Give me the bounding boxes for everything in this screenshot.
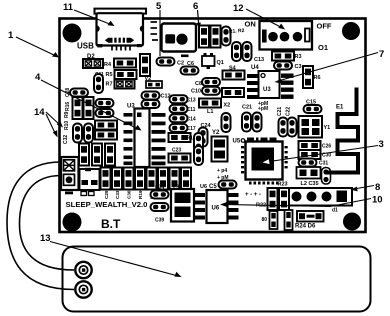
capacitor C13 bbox=[170, 95, 196, 103]
capacitor C32 bbox=[63, 135, 115, 166]
capacitor C22 bbox=[253, 113, 262, 132]
capacitor bbox=[211, 26, 221, 48]
svg-text:14: 14 bbox=[34, 107, 45, 118]
test pads pM bbox=[258, 101, 268, 112]
svg-text:C29: C29 bbox=[104, 190, 109, 199]
svg-text:X2: X2 bbox=[224, 103, 231, 109]
mounting hole top-left bbox=[63, 24, 82, 43]
capacitor C2 bbox=[157, 58, 185, 67]
svg-text:U6: U6 bbox=[212, 206, 220, 212]
wire battery positive bbox=[7, 162, 74, 290]
svg-text:L2 C35: L2 C35 bbox=[301, 181, 319, 187]
capacitor bbox=[222, 27, 231, 46]
mounting hole bottom-left bbox=[63, 213, 82, 232]
test points bbox=[217, 168, 229, 181]
svg-text:R4: R4 bbox=[104, 62, 112, 68]
svg-text:C30: C30 bbox=[127, 190, 132, 199]
battery connector BT1 bbox=[61, 157, 79, 194]
callout 13 bbox=[40, 233, 182, 277]
svg-text:OFF: OFF bbox=[317, 22, 332, 31]
capacitor C21b bbox=[277, 107, 288, 137]
resistor R15 bbox=[169, 148, 191, 163]
svg-text:+pM: +pM bbox=[258, 106, 268, 112]
svg-text:B.T: B.T bbox=[101, 217, 121, 231]
svg-text:C21: C21 bbox=[242, 105, 252, 111]
svg-text:5: 5 bbox=[156, 1, 162, 12]
callout 1 bbox=[8, 30, 59, 58]
svg-text:C33: C33 bbox=[115, 190, 120, 199]
capacitor C11 bbox=[94, 74, 103, 93]
svg-text:R3: R3 bbox=[295, 54, 302, 60]
callout 3 bbox=[263, 139, 384, 164]
crystal Y2 bbox=[212, 130, 228, 162]
capacitor C26 bbox=[299, 141, 332, 150]
resistor R5 bbox=[95, 70, 137, 79]
IC U3 (SOIC) bbox=[247, 71, 294, 99]
svg-text:C11: C11 bbox=[187, 107, 196, 113]
callout 14 bbox=[34, 107, 63, 138]
callout 4 bbox=[35, 72, 142, 131]
svg-text:Y1: Y1 bbox=[324, 125, 331, 131]
resistor S4 bbox=[223, 66, 245, 80]
callout 12 bbox=[233, 3, 285, 30]
capacitor C14 bbox=[170, 114, 196, 122]
svg-text:C10: C10 bbox=[191, 89, 201, 95]
svg-text:SLEEP_WEALTH_V2.0: SLEEP_WEALTH_V2.0 bbox=[66, 200, 148, 209]
svg-text:R23: R23 bbox=[278, 182, 288, 188]
diode D2 bbox=[83, 54, 103, 68]
svg-text:R7: R7 bbox=[106, 82, 113, 88]
svg-text:ON: ON bbox=[245, 20, 256, 29]
resistor R14 bbox=[169, 133, 196, 142]
USB connector J1 bbox=[95, 9, 147, 51]
resistor R1 R2 labels bbox=[229, 28, 245, 35]
svg-text:3: 3 bbox=[379, 139, 384, 150]
capacitor C17 bbox=[170, 124, 196, 132]
capacitor C34 bbox=[151, 185, 169, 199]
svg-text:C8: C8 bbox=[195, 81, 202, 87]
inductor L2 bbox=[297, 167, 321, 187]
slide switch S2 bbox=[245, 20, 332, 53]
svg-text:C17: C17 bbox=[187, 126, 196, 132]
capacitor C1 bbox=[140, 54, 150, 76]
svg-text:C13: C13 bbox=[254, 57, 264, 63]
resistor R9 R10 labels bbox=[64, 111, 70, 130]
balun V1 bbox=[299, 116, 331, 138]
svg-text:C3: C3 bbox=[295, 64, 302, 70]
svg-text:12: 12 bbox=[233, 3, 244, 14]
svg-text:O1: O1 bbox=[318, 43, 328, 52]
capacitor C3 bbox=[274, 62, 302, 71]
svg-text:C32: C32 bbox=[63, 135, 69, 144]
resistor R3 bbox=[272, 52, 302, 61]
callout 5 bbox=[156, 1, 162, 56]
battery B1 bbox=[63, 247, 371, 312]
svg-text:11: 11 bbox=[63, 2, 74, 13]
capacitor C10 bbox=[191, 87, 220, 95]
svg-text:C26: C26 bbox=[322, 144, 331, 150]
mounting hole bottom-right bbox=[343, 213, 361, 231]
svg-text:E1: E1 bbox=[336, 105, 344, 111]
svg-text:C22: C22 bbox=[286, 107, 292, 116]
svg-text:C31: C31 bbox=[319, 161, 328, 167]
battery terminal - bbox=[75, 281, 91, 297]
battery terminal + bbox=[75, 262, 91, 278]
svg-text:C2: C2 bbox=[177, 61, 184, 67]
svg-text:R19: R19 bbox=[138, 190, 143, 199]
svg-text:C21: C21 bbox=[277, 107, 283, 116]
resistor R4 bbox=[104, 59, 136, 69]
svg-text:+ - + -: + - + - bbox=[245, 192, 261, 198]
IC U3 (main MCU) bbox=[124, 104, 166, 168]
capacitor C28 bbox=[65, 88, 94, 119]
inductor L1 bbox=[199, 99, 230, 116]
capacitor C23 bbox=[194, 133, 203, 165]
capacitor C22b bbox=[286, 107, 297, 137]
capacitor C11b bbox=[170, 105, 196, 113]
capacitor C8 bbox=[195, 78, 220, 87]
capacitor C18 bbox=[222, 113, 231, 132]
capacitor C13b under ON bbox=[254, 57, 264, 63]
resistor R7 bbox=[106, 80, 135, 89]
mounting hole top-right bbox=[342, 22, 360, 40]
resistor R12 bbox=[95, 121, 117, 130]
pin hatch left of S1 bbox=[151, 22, 159, 40]
svg-text:U5: U5 bbox=[233, 139, 241, 145]
resistor R21 bbox=[262, 211, 278, 229]
svg-text:C39: C39 bbox=[155, 218, 164, 224]
antenna E1 bbox=[327, 88, 358, 173]
svg-text:U3: U3 bbox=[263, 87, 271, 93]
capacitor C12 bbox=[142, 92, 171, 109]
wire battery negative bbox=[20, 176, 75, 271]
resistor R6 bbox=[303, 66, 321, 88]
capacitor C6 bbox=[181, 61, 199, 75]
connector box J2 bbox=[80, 168, 100, 196]
resistor R13 bbox=[95, 131, 117, 140]
PCB board outline bbox=[60, 19, 366, 233]
svg-text:R10: R10 bbox=[64, 121, 70, 130]
svg-text:R5: R5 bbox=[106, 72, 113, 78]
connector row labels bbox=[104, 190, 178, 199]
capacitor C5 bbox=[209, 181, 237, 191]
IC U6 bbox=[195, 184, 239, 223]
capacitor C39 bbox=[151, 203, 169, 224]
capacitor C30 bbox=[73, 124, 93, 143]
svg-text:+ p4: + p4 bbox=[217, 168, 227, 174]
connector row J3 bbox=[101, 168, 192, 190]
svg-text:13: 13 bbox=[40, 233, 51, 244]
connector J4 (callout 8 target) bbox=[289, 188, 352, 206]
callout 11 bbox=[63, 2, 115, 26]
svg-text:C14: C14 bbox=[187, 117, 196, 123]
IC U5 (RF chip) bbox=[233, 138, 288, 185]
callout 10 bbox=[220, 195, 383, 208]
capacitor C30b bbox=[299, 150, 332, 159]
svg-text:8: 8 bbox=[375, 182, 380, 193]
callout 8 bbox=[351, 182, 381, 193]
svg-text:1: 1 bbox=[8, 30, 14, 41]
capacitor C24 bbox=[199, 123, 212, 147]
svg-text:R6: R6 bbox=[314, 75, 321, 81]
diode D5 bbox=[285, 208, 339, 231]
test point row bbox=[245, 192, 261, 198]
resistor R23 bbox=[256, 182, 289, 211]
svg-text:R9: R9 bbox=[64, 111, 70, 118]
svg-text:L1: L1 bbox=[207, 109, 213, 115]
svg-text:USB: USB bbox=[77, 42, 94, 51]
svg-text:R1. R2: R1. R2 bbox=[229, 28, 245, 35]
transistor Q1 bbox=[202, 53, 224, 69]
svg-text:80: 80 bbox=[262, 217, 268, 223]
capacitor C23 bbox=[232, 42, 252, 61]
svg-text:Q1: Q1 bbox=[217, 60, 224, 66]
svg-text:d1: d1 bbox=[332, 208, 338, 214]
resistor R11 bbox=[222, 88, 244, 97]
svg-text:C13: C13 bbox=[187, 98, 196, 104]
svg-text:R24 D6: R24 D6 bbox=[295, 224, 316, 230]
svg-text:Y2: Y2 bbox=[212, 130, 220, 136]
callout 7 bbox=[275, 49, 385, 84]
svg-text:10: 10 bbox=[372, 195, 383, 206]
resistor R10 bbox=[96, 109, 114, 117]
svg-text:R16: R16 bbox=[65, 102, 71, 111]
buzzer S1 bbox=[162, 24, 197, 58]
capacitor C35 bbox=[322, 168, 331, 185]
regulator V2 bbox=[145, 76, 163, 88]
svg-text:7: 7 bbox=[379, 49, 384, 60]
capacitor C21 bbox=[242, 105, 252, 132]
capacitor group under callout 6 bbox=[199, 26, 209, 48]
crystal Y3 bbox=[171, 185, 194, 222]
resistor R9 bbox=[96, 99, 114, 107]
resistor R2 pill (callout 4 target) bbox=[70, 89, 88, 97]
callout 6 bbox=[193, 1, 201, 29]
capacitor C31 bbox=[299, 159, 329, 167]
svg-text:4: 4 bbox=[35, 72, 41, 83]
capacitor C16 bbox=[304, 100, 322, 114]
